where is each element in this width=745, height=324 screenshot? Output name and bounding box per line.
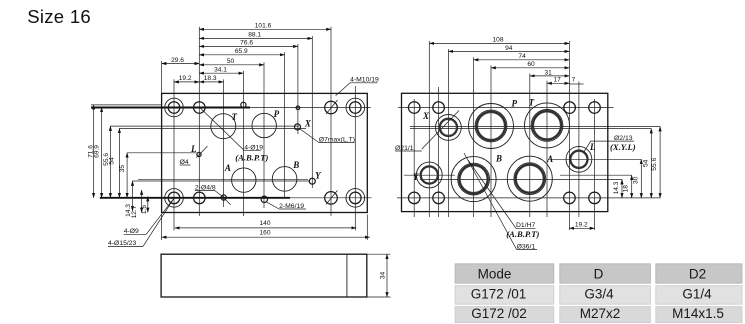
svg-text:30: 30 [633, 176, 640, 184]
hole top second right view [433, 102, 445, 114]
hole D7 bottom right view [564, 192, 576, 204]
svg-text:69.9: 69.9 [93, 145, 100, 158]
dim 50 [199, 58, 264, 65]
svg-text:1.6: 1.6 [141, 205, 148, 214]
dim 35 [119, 153, 127, 198]
svg-text:34.1: 34.1 [214, 67, 227, 74]
svg-text:19.2: 19.2 [575, 222, 588, 229]
dim 74 [474, 53, 570, 60]
svg-text:G172 /01: G172 /01 [471, 287, 527, 302]
svg-text:34: 34 [379, 272, 386, 280]
dim 12.7 [131, 190, 141, 218]
svg-text:D2: D2 [689, 267, 706, 282]
pilot hole Y left view [309, 178, 315, 184]
dim 69.9 [93, 107, 101, 197]
table header text [478, 267, 707, 282]
svg-text:(A.B.P.T): (A.B.P.T) [506, 229, 539, 239]
svg-text:A: A [546, 154, 553, 164]
svg-text:65.9: 65.9 [235, 48, 248, 55]
svg-text:54: 54 [642, 159, 649, 167]
label 2-M6/19 [266, 202, 306, 210]
svg-text:35: 35 [119, 165, 126, 173]
tapped hole M6 [261, 196, 267, 202]
dim 76.6 [199, 40, 298, 47]
svg-text:60: 60 [527, 61, 535, 68]
side view extension lines [367, 254, 391, 297]
locating pin hole D7 [296, 106, 300, 110]
port B right view [451, 157, 496, 202]
port B left view [272, 167, 297, 192]
label D21/1 [395, 111, 459, 152]
dim 18r [623, 175, 632, 198]
svg-text:140: 140 [259, 220, 270, 227]
right view row extension lines [397, 108, 660, 198]
dim 34.1 [199, 67, 243, 74]
hole L left view with leader [196, 146, 207, 158]
svg-text:X: X [304, 118, 312, 128]
svg-text:X: X [422, 111, 430, 121]
svg-text:P: P [274, 109, 280, 119]
label 2-D4/8 [195, 184, 224, 197]
svg-text:A: A [224, 163, 231, 173]
dim 7 [569, 77, 583, 84]
dim 17 [547, 77, 569, 84]
port T left view [211, 114, 236, 139]
svg-text:14.3: 14.3 [613, 181, 620, 194]
svg-text:108: 108 [492, 37, 503, 44]
dim 60 [491, 61, 569, 68]
dim 108 [429, 37, 569, 44]
svg-text:(A.B.P.T): (A.B.P.T) [235, 152, 268, 162]
svg-text:17: 17 [554, 77, 562, 84]
port T right view [525, 103, 570, 148]
port P right view [469, 104, 514, 149]
bolt hole counterbore top-left [165, 98, 184, 117]
svg-text:50: 50 [227, 58, 235, 65]
dim 55.6r [651, 127, 660, 198]
bolt hole counterbore bottom-right [346, 189, 365, 208]
right view plate outline [402, 93, 608, 211]
dim 18.3 [199, 75, 223, 82]
label D4 [180, 159, 191, 166]
svg-text:7: 7 [572, 77, 576, 84]
svg-text:18: 18 [623, 185, 630, 193]
right view column extension lines [414, 41, 594, 230]
svg-text:B: B [292, 160, 299, 170]
svg-text:54: 54 [109, 157, 116, 165]
label D2/13 [584, 135, 635, 153]
label 4-D9 [124, 198, 174, 235]
dim 54 [109, 128, 120, 197]
dim 30r [633, 159, 642, 198]
side view plate outline [161, 254, 367, 297]
svg-text:31: 31 [545, 69, 553, 76]
dim 140 [175, 220, 357, 228]
left view row extension lines [91, 105, 372, 198]
table row G172/01 [471, 287, 712, 302]
svg-text:M14x1.5: M14x1.5 [672, 306, 724, 321]
label 4-M10/19 [336, 77, 379, 96]
bolt hole counterbore top-right [346, 98, 365, 117]
svg-text:L: L [589, 142, 596, 152]
label D36/1 [464, 153, 537, 250]
svg-text:18.3: 18.3 [204, 75, 217, 82]
svg-text:29.6: 29.6 [171, 57, 184, 64]
dim 34 [379, 254, 387, 297]
tapped hole M10 bottom [325, 190, 338, 204]
corner hole bottom-right right view [589, 192, 601, 204]
port X right view [436, 115, 462, 141]
svg-text:P: P [511, 98, 517, 108]
left view plate outline [162, 93, 368, 212]
svg-text:B: B [495, 153, 502, 163]
hole D9 top [194, 102, 206, 114]
port P left view [252, 113, 276, 137]
dim 14.3r [613, 180, 622, 198]
svg-text:88.1: 88.1 [248, 32, 261, 39]
label 4-D19 [201, 108, 264, 151]
dim 1.6 [141, 197, 148, 215]
svg-text:D: D [594, 267, 604, 282]
port L right view [566, 146, 592, 172]
dim 65.9 [199, 48, 284, 55]
label D1/H7 [468, 160, 536, 229]
label D7max(L.T) [299, 128, 355, 143]
hole D4 bottom with slash [221, 195, 230, 205]
hole D9 bottom [194, 192, 206, 204]
left view column extension lines [162, 27, 368, 240]
svg-text:T: T [232, 112, 238, 122]
side view step line [346, 254, 348, 297]
svg-text:G3/4: G3/4 [584, 287, 614, 302]
pilot hole X left view [295, 124, 301, 130]
svg-text:101.6: 101.6 [255, 23, 272, 30]
svg-text:(X.Y.L): (X.Y.L) [610, 142, 636, 152]
svg-text:76.6: 76.6 [240, 40, 253, 47]
svg-text:19.2: 19.2 [179, 75, 192, 82]
svg-text:M27x2: M27x2 [580, 306, 621, 321]
hole D7 top right view [564, 102, 576, 114]
svg-text:74: 74 [518, 53, 526, 60]
svg-text:Mode: Mode [478, 267, 512, 282]
svg-text:55.6: 55.6 [651, 158, 658, 171]
corner hole bottom-left right view [408, 192, 420, 204]
dim 55.6 [103, 126, 110, 198]
table background cells [455, 264, 742, 323]
bolt hole counterbore bottom-left [165, 189, 184, 208]
svg-text:12.7: 12.7 [131, 205, 138, 218]
dim 19.2r [569, 222, 594, 229]
dim 101.6 [199, 23, 331, 30]
dim 29.6 [162, 57, 200, 64]
tapped hole M10 top [325, 100, 338, 114]
svg-text:94: 94 [505, 45, 513, 52]
dim 19.2 [174, 75, 199, 82]
hole bottom second right view [433, 192, 445, 204]
svg-text:L: L [190, 144, 197, 154]
dim 94 [448, 45, 569, 52]
label 4-D15/23 [108, 198, 174, 247]
dim 160 [162, 230, 370, 238]
port A left view [232, 168, 256, 192]
svg-text:G172 /02: G172 /02 [471, 306, 527, 321]
port Y right view [416, 162, 442, 188]
corner hole top-left right view [408, 102, 420, 114]
table row G172/02 [471, 306, 724, 321]
svg-text:T: T [529, 97, 535, 107]
dim 88.1 [199, 32, 312, 39]
port A right view [507, 156, 552, 201]
dim 31 [530, 69, 570, 76]
dim 71.6 [88, 105, 95, 198]
corner hole top-right right view [589, 102, 601, 114]
svg-text:G1/4: G1/4 [682, 287, 712, 302]
dim 14.3 [125, 181, 133, 217]
svg-text:Size 16: Size 16 [27, 6, 91, 27]
dim 54r [642, 129, 651, 198]
svg-text:160: 160 [259, 230, 270, 237]
hole D4 top [241, 102, 246, 107]
